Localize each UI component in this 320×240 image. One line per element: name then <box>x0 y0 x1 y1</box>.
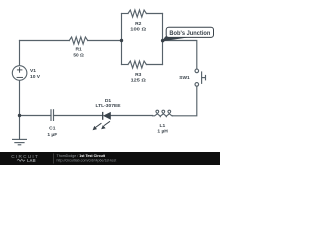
node junction dot left <box>120 39 123 42</box>
svg-text:10 V: 10 V <box>30 74 41 80</box>
wire L1 to LED <box>110 115 152 117</box>
node junction dot Bob's Junction <box>161 39 165 43</box>
footer separator <box>53 154 55 164</box>
svg-text:C1: C1 <box>49 126 56 132</box>
svg-text:R3: R3 <box>135 72 142 78</box>
flag Bob's Junction <box>166 27 213 37</box>
wire R1 to parallel node <box>88 40 122 42</box>
svg-text:R2: R2 <box>135 21 142 27</box>
wire LED to C1 <box>54 115 103 117</box>
resistor R2 <box>128 10 146 17</box>
voltage source V1 <box>12 66 27 81</box>
wire parallel box left vertical <box>121 14 123 65</box>
svg-text:V1: V1 <box>30 68 36 74</box>
wire parallel box right vertical <box>162 14 164 65</box>
svg-text:50 Ω: 50 Ω <box>73 52 83 58</box>
wire bottom branch left lead <box>122 64 129 66</box>
wire top from corner to R1 <box>20 40 70 42</box>
svg-text:R1: R1 <box>75 47 82 53</box>
wire top branch right lead <box>146 13 162 15</box>
svg-text:1 µF: 1 µF <box>47 132 57 138</box>
wire C1 to left rail <box>20 115 52 117</box>
svg-text:LAB: LAB <box>27 158 36 163</box>
footer bar <box>0 152 220 165</box>
inductor L1 <box>153 110 173 117</box>
diode D1 LED <box>93 112 111 130</box>
wire left rail bottom (V1 bottom to ground) <box>19 80 21 139</box>
wire switch bottom to L1 <box>173 86 197 115</box>
wire top branch left lead <box>122 13 129 15</box>
svg-text:125 Ω: 125 Ω <box>131 78 146 84</box>
svg-text:LTL-307EE: LTL-307EE <box>96 103 122 109</box>
svg-text:1 µH: 1 µH <box>157 129 168 135</box>
svg-text:ThomDodge / 1st Test Circuit: ThomDodge / 1st Test Circuit <box>57 154 106 158</box>
wire junction to switch corner <box>163 41 197 69</box>
resistor R3 <box>128 61 146 68</box>
resistor R1 <box>69 37 87 44</box>
ground <box>12 139 27 144</box>
switch SW1 <box>195 69 206 86</box>
wire left rail top (V1 top to corner) <box>19 41 21 66</box>
flag pointer Bob's Junction <box>162 36 189 41</box>
svg-text:L1: L1 <box>160 123 166 129</box>
capacitor C1 <box>51 109 54 121</box>
svg-text:http://circuitlab.com/c/drt4p6: http://circuitlab.com/c/drt4p6e/1st-test <box>57 159 117 163</box>
svg-text:Bob's Junction: Bob's Junction <box>169 30 210 37</box>
node junction dot bottom left <box>18 114 21 117</box>
svg-text:SW1: SW1 <box>179 75 190 81</box>
wire bottom branch right lead <box>146 64 162 66</box>
svg-text:100 Ω: 100 Ω <box>130 27 146 33</box>
